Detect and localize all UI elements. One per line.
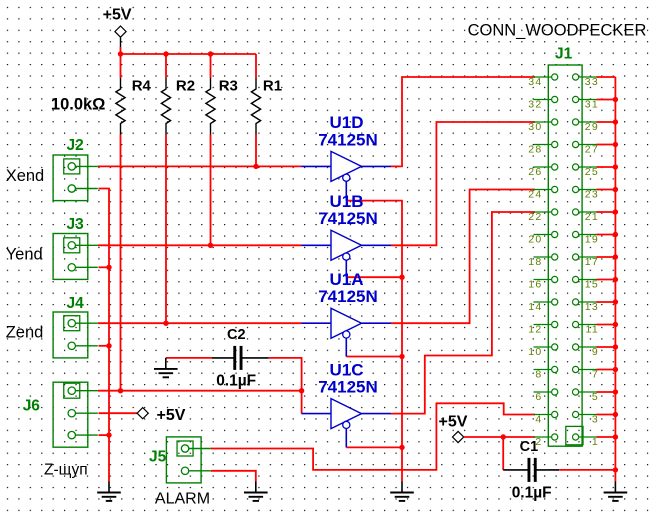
wire R4 bottom to J6 net [120,135,122,391]
op-amp U1C buffer [302,360,392,447]
wire J1 pin15 to bus [597,279,616,281]
wire J6 pin1 net [98,390,302,392]
svg-text:J2: J2 [67,137,84,154]
node bus pin21 [613,209,618,214]
op-amp U1A buffer [302,270,392,357]
svg-text:Z-щуп: Z-щуп [44,462,88,479]
wire ALARM J5 pin1 to J1 pin4 [211,403,535,470]
svg-text:74125N: 74125N [318,130,378,149]
svg-text:R2: R2 [176,78,195,95]
node bus pin5 [613,389,618,394]
node Zend-R2 [163,321,168,326]
svg-text:34: 34 [528,76,542,88]
svg-text:33: 33 [585,76,599,88]
node U1A enable [399,354,404,359]
svg-text:24: 24 [528,188,542,200]
svg-text:6: 6 [535,391,542,403]
node rail-R4 [118,51,123,56]
node bus pin17 [613,254,618,259]
svg-text:9: 9 [592,346,599,358]
wire rail to R1 top [255,54,257,78]
node J6net-C2 [299,388,304,393]
node +5V C1 [501,434,506,439]
ground C2 [154,358,178,377]
svg-text:J1: J1 [555,46,573,63]
svg-text:U1A: U1A [329,270,363,289]
connector J4 [53,295,98,358]
wire R1 bottom to Xend net [255,135,257,167]
svg-text:16: 16 [528,278,542,290]
svg-text:29: 29 [585,121,599,133]
wire J6 pin2 to +5V [99,412,138,414]
wire J5 pin2 to ground [211,471,256,482]
wire rail to R3 top [210,54,212,78]
svg-text:0.1µF: 0.1µF [216,373,256,390]
svg-text:26: 26 [528,166,542,178]
svg-text:31: 31 [585,98,599,110]
svg-text:J3: J3 [67,216,85,233]
node bus pin27 [613,142,618,147]
svg-text:+5V: +5V [103,7,132,24]
power +5V top [103,7,132,47]
svg-text:C2: C2 [227,327,246,343]
wire J1 pin19 to bus [597,234,616,236]
node bus pin31 [613,97,618,102]
svg-text:Yend: Yend [6,246,43,264]
node J3 pin2 [106,265,111,270]
wire C2 left to ground [166,357,212,359]
svg-text:5: 5 [592,391,599,403]
svg-text:19: 19 [585,233,599,245]
svg-text:11: 11 [586,323,600,335]
resistor R4 [116,78,152,135]
svg-text:10: 10 [528,346,542,358]
wire rail to R2 top [165,54,167,78]
svg-text:2: 2 [535,436,542,448]
wire C2 right to U1C input [269,358,302,414]
wire R2 bottom to Zend net [165,135,167,324]
node C1 bus [613,467,618,472]
svg-text:J5: J5 [149,449,167,466]
wire J1 pin23 to bus [597,189,616,191]
node bus pin13 [613,299,618,304]
wire +5V stem [120,47,122,54]
wire J1 pin29 to bus [597,121,616,123]
op-amp U1B buffer [302,192,392,277]
power +5V J6 [137,407,186,424]
svg-text:R1: R1 [263,78,282,95]
wire J1 pin9 to bus [597,346,616,348]
wire C2 left lead [212,357,234,359]
wire +5V to J1 pin2 [464,436,535,438]
node Xend-R1 [253,164,258,169]
node J6net-R4 [118,388,123,393]
svg-text:CONN_WOODPECKER: CONN_WOODPECKER [468,21,647,39]
wire J1 pin25 to bus [597,166,616,168]
svg-text:1: 1 [592,436,599,448]
capacitor C1 [512,439,552,501]
svg-text:Xend: Xend [6,167,45,185]
connector J6 [23,382,98,447]
svg-text:12: 12 [528,323,542,335]
wire J1 pin21 to bus [597,211,616,213]
node U1C enable [399,445,404,450]
svg-text:18: 18 [528,256,542,268]
wire U1B enable [346,276,402,278]
wire +5V rail [121,53,257,55]
ground right bus [604,482,628,501]
svg-text:+5V: +5V [439,413,468,430]
wire C2 right lead [242,357,269,359]
svg-text:R4: R4 [132,78,152,95]
op-amp U1D buffer [302,113,392,201]
svg-text:28: 28 [528,143,542,155]
wire C1 right lead [536,469,559,471]
wire rail to R4 top [120,54,122,78]
svg-text:74125N: 74125N [318,378,378,397]
svg-text:U1C: U1C [329,360,363,379]
connector J1 [528,46,599,448]
resistor R3 [206,78,238,135]
node bus pin1 [613,434,618,439]
wire U1C output to J1 pin22 [391,212,535,414]
node J4 pin2 [106,343,111,348]
wire U1C enable [346,446,402,448]
svg-text:U1B: U1B [329,192,363,211]
svg-text:7: 7 [592,368,599,380]
svg-text:R3: R3 [219,78,238,95]
connector J3 [53,216,98,279]
node bus pin7 [613,367,618,372]
wire C1 to right bus [559,469,615,471]
connector J2 [53,137,98,201]
wire J1 pin7 to bus [597,369,616,371]
resistor R1 [251,78,282,135]
wire U1A output to J1 pin24 [391,190,535,324]
wire R3 bottom to Yend net [210,135,212,246]
node bus pin25 [613,164,618,169]
wire U1B output to J1 pin30 [391,122,535,245]
wire J1 pin17 to bus [597,256,616,258]
wire J1 pin27 to bus [597,144,616,146]
ground left bus [97,482,121,501]
wire J1 pin31 to bus [597,99,616,101]
wire J1 pin5 to bus [597,391,616,393]
svg-text:30: 30 [528,121,542,133]
svg-text:J4: J4 [67,295,85,312]
svg-text:10.0kΩ: 10.0kΩ [51,96,106,114]
svg-text:4: 4 [535,413,542,425]
wire J4 pin2 to bus [99,345,110,347]
svg-text:0.1µF: 0.1µF [512,485,552,502]
wire J1 right bus [614,77,616,482]
svg-text:3: 3 [592,413,599,425]
svg-text:32: 32 [528,98,542,110]
wire J1 pin1 to bus [597,436,616,438]
ground J5 [244,482,268,501]
svg-text:13: 13 [585,301,599,313]
wire J2 pin2 down bus [99,189,110,482]
svg-text:23: 23 [585,188,599,200]
power +5V C1 [439,413,468,442]
svg-text:14: 14 [528,301,542,313]
svg-text:Zend: Zend [6,324,44,342]
node bus pin9 [613,344,618,349]
svg-text:74125N: 74125N [318,287,378,306]
wire Zend net [98,322,302,324]
svg-text:8: 8 [535,368,542,380]
svg-text:J6: J6 [23,398,41,415]
wire Yend net [98,244,302,246]
node rail-R2 [163,51,168,56]
wire J1 pin11 to bus [597,324,616,326]
node U1B enable [399,275,404,280]
wire U1D output to J1 pin34 [391,77,535,166]
capacitor C2 [216,327,256,390]
wire J1 pin33 to bus [597,76,616,78]
wire U1D enable [346,201,402,482]
node bus pin29 [613,119,618,124]
node J6 pin3 [106,432,111,437]
svg-text:17: 17 [585,256,599,268]
wire J3 pin2 to bus [99,266,110,268]
wire J6 pin3 to bus [99,434,110,436]
wire J1 pin3 to bus [597,414,616,416]
node bus pin15 [613,277,618,282]
wire Xend net [98,165,302,167]
node bus pin3 [613,412,618,417]
svg-text:15: 15 [585,278,599,290]
connector J5 [149,437,211,483]
node bus pin11 [613,322,618,327]
node Yend-R3 [208,243,213,248]
svg-text:20: 20 [528,233,542,245]
node bus pin23 [613,187,618,192]
svg-text:+5V: +5V [157,407,186,424]
svg-text:74125N: 74125N [318,209,378,228]
wire J1 pin13 to bus [597,301,616,303]
node rail-R3 [208,51,213,56]
wire +5V down to C1 [502,437,504,470]
svg-text:21: 21 [585,211,599,223]
node bus pin19 [613,232,618,237]
svg-text:25: 25 [585,166,599,178]
resistor R2 [161,78,195,135]
svg-text:U1D: U1D [329,113,363,132]
ground enable bus [390,482,414,501]
wire C1 left lead [503,469,528,471]
wire U1A enable [346,356,402,358]
svg-text:27: 27 [585,143,599,155]
svg-text:22: 22 [528,211,542,223]
svg-text:ALARM: ALARM [155,491,210,508]
